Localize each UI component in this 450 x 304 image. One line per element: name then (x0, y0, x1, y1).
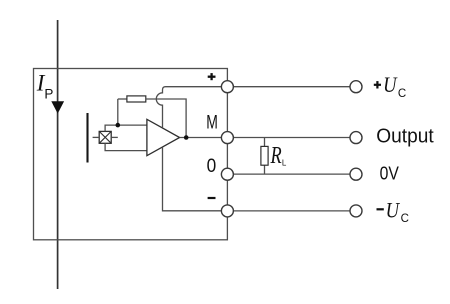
label RL (270, 143, 287, 169)
label I_P (36, 71, 54, 102)
load resistor RL (261, 146, 268, 165)
connector circle 0V (350, 168, 362, 180)
wire hall bottom to op-amp inverting input (105, 143, 147, 150)
terminal 0 (221, 168, 233, 180)
connector circle -Uc (350, 205, 362, 217)
output node dot (184, 135, 189, 140)
wire terminal + to connector +Uc (227, 86, 350, 88)
current direction arrow (51, 101, 64, 113)
wire positive supply with crossover hop (156, 87, 221, 128)
op-amp A1 (147, 119, 180, 155)
hall generator (93, 131, 118, 143)
wire feedback resistor to output node (146, 99, 186, 138)
connector circle +Uc (350, 81, 362, 93)
terminal - (221, 205, 233, 217)
wire terminal - to connector -Uc (227, 210, 350, 212)
wire negative supply to terminal minus (163, 147, 222, 211)
terminal + (221, 81, 233, 93)
svg-text:0: 0 (207, 155, 217, 177)
svg-text:M: M (206, 113, 218, 134)
label terminal + (208, 73, 216, 80)
wire terminal M to connector Output (227, 137, 350, 139)
magnetic core bar (86, 113, 88, 163)
svg-text:C: C (401, 213, 409, 225)
primary conductor wire Ip (57, 20, 59, 289)
wire junction dot to feedback resistor (117, 99, 119, 125)
label -Uc (377, 198, 409, 226)
svg-text:L: L (282, 159, 287, 168)
svg-text:U: U (383, 72, 398, 97)
svg-text:Output: Output (376, 125, 434, 147)
transducer box (34, 69, 228, 240)
svg-text:R: R (270, 143, 282, 169)
wire op-amp output to terminal M (180, 137, 222, 139)
svg-text:0V: 0V (380, 163, 400, 184)
terminal M (221, 132, 233, 144)
load resistor RL leads (264, 138, 266, 147)
label terminal - (208, 197, 216, 199)
svg-text:U: U (386, 198, 401, 223)
connector circle Output (350, 132, 362, 144)
svg-text:P: P (44, 86, 53, 101)
feedback resistor (127, 96, 146, 102)
wire terminal 0 to connector 0V (227, 173, 350, 175)
junction dot node A (116, 123, 121, 128)
wire hall top to op-amp non-inverting input (105, 125, 147, 131)
feedback resistor lead left (118, 98, 127, 100)
svg-text:C: C (398, 88, 406, 100)
label +Uc (374, 72, 406, 100)
